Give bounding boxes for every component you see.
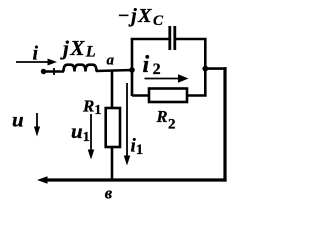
- svg-text:u1: u1: [71, 119, 90, 145]
- wire loop bottom-left: [132, 94, 150, 97]
- inductor L1 (jXL): [64, 65, 97, 72]
- resistor R2: [149, 89, 187, 103]
- svg-text:R2: R2: [156, 107, 176, 133]
- current arrow i2: [145, 74, 189, 82]
- wire capacitor loop left vertical: [131, 39, 134, 96]
- voltage arrow u1: [88, 114, 95, 160]
- svg-text:jXL: jXL: [60, 36, 97, 61]
- wire capacitor loop right vertical: [204, 39, 207, 96]
- svg-text:i1: i1: [131, 136, 144, 159]
- wire bottom: [45, 178, 227, 181]
- capacitor C plates: [170, 26, 175, 50]
- terminal dot: [41, 69, 46, 74]
- svg-text:−jXC: −jXC: [118, 5, 165, 29]
- voltage arrow u: [34, 113, 40, 137]
- junction dot right: [202, 66, 208, 72]
- svg-text:u: u: [12, 108, 24, 132]
- wire capacitor top-left: [131, 38, 169, 41]
- current arrow i: [16, 59, 57, 66]
- current arrow i1: [124, 83, 131, 166]
- tick on wire: [53, 68, 55, 75]
- svg-text:i2: i2: [143, 52, 165, 78]
- wire capacitor top-right: [176, 38, 207, 41]
- wire R1 branch lower: [111, 147, 114, 180]
- wire right vertical: [223, 67, 226, 181]
- wire from inductor to junction: [96, 70, 133, 71]
- svg-text:a: a: [107, 53, 115, 69]
- resistor R1: [106, 108, 120, 147]
- wire loop bottom-right: [187, 94, 207, 97]
- wire R1 branch upper: [111, 71, 114, 109]
- junction node a dot: [129, 67, 135, 73]
- return arrowhead: [37, 176, 48, 184]
- svg-text:i: i: [33, 43, 39, 65]
- wire output top: [205, 67, 226, 70]
- wire top-left segment: [43, 70, 64, 73]
- svg-text:в: в: [105, 184, 113, 203]
